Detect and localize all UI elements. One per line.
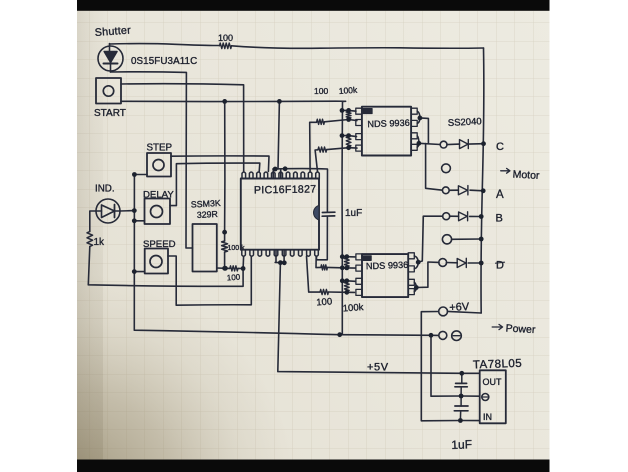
IC U3 NDS9936 body (bottom) — [362, 254, 408, 297]
resistor 100k pull coil B (top chip) — [346, 137, 351, 147]
svg-text:OUT: OUT — [483, 377, 503, 387]
wire left common rail down to power wire — [134, 175, 438, 336]
svg-text:1uF: 1uF — [345, 208, 362, 219]
IC U3 pin1 hatch mark — [363, 256, 372, 261]
svg-text:SS2040: SS2040 — [448, 116, 482, 129]
svg-text:Power: Power — [505, 323, 536, 337]
svg-text:PIC16F1827: PIC16F1827 — [254, 183, 317, 196]
connector D circle — [439, 259, 447, 267]
svg-text:100: 100 — [218, 33, 233, 43]
svg-text:100: 100 — [314, 86, 328, 96]
pushbutton STEP — [147, 153, 171, 177]
wire SPEED left stub — [134, 271, 144, 273]
wire gate row2 from PIC (bottom) — [316, 256, 321, 267]
wire motor rail vertical — [481, 48, 484, 313]
connector A circle — [442, 187, 449, 194]
resistor 100k (vertical, base pulldown) — [222, 241, 228, 252]
wire U2 upper pair to C corner — [420, 118, 429, 144]
svg-text:B: B — [496, 213, 503, 225]
svg-text:START: START — [94, 108, 126, 119]
svg-text:+5V: +5V — [367, 362, 389, 374]
IC U2 gate pins (left) — [356, 108, 362, 151]
left edge shading strip — [77, 0, 111, 472]
connector power + circle — [439, 331, 447, 339]
capacitor C1 1uF (upper) — [455, 373, 467, 396]
wire DELAY to PIC pin — [170, 163, 260, 206]
wire +6V left and down to IN row — [421, 312, 479, 421]
capacitor C2 1uF (lower) — [454, 396, 468, 421]
wire minus branch down to regulator mid row — [431, 335, 480, 396]
resistor 100k pull coil A (top chip) — [346, 112, 351, 119]
svg-text:NDS 9936: NDS 9936 — [366, 260, 409, 271]
bottom letterbox black bar — [77, 460, 550, 472]
wire SSM3K right to 100k junction — [217, 267, 226, 269]
wire VDD rail up to START wire — [278, 101, 279, 168]
capacitor 1uF decoupling plates — [322, 212, 335, 216]
svg-text:STEP: STEP — [147, 143, 173, 154]
svg-text:IN: IN — [483, 412, 492, 422]
svg-text:100: 100 — [316, 296, 333, 308]
arrow to Power — [492, 324, 502, 329]
regulator TA78L05 box — [480, 370, 506, 423]
wire rail from START wire down to junction — [224, 101, 226, 232]
svg-text:SSM3K: SSM3K — [191, 198, 221, 210]
diode C — [460, 140, 469, 149]
wire U2 lower pair join — [417, 136, 419, 148]
wire B net up — [418, 216, 481, 262]
wire START top to PIC pin — [121, 84, 244, 172]
wire C row — [419, 143, 484, 144]
wire 100k pull-up rail vertical — [341, 101, 344, 334]
wire A branch from C row — [426, 144, 484, 191]
svg-text:NDS 9936: NDS 9936 — [367, 118, 410, 129]
LED IND — [96, 199, 120, 223]
svg-text:A: A — [496, 189, 504, 201]
svg-text:Motor: Motor — [512, 169, 540, 182]
connector power - circle (minus) — [452, 331, 462, 341]
pushbutton DELAY — [145, 199, 171, 225]
wire D net up — [416, 262, 481, 288]
connector unused circle (lower) with wire — [442, 235, 481, 244]
capacitor blob inside PIC (dark semicircle) — [314, 205, 319, 220]
resistor 100k pull coil A (bottom chip) — [344, 258, 349, 267]
wire gate row1 (top) — [342, 109, 356, 112]
svg-text:329R: 329R — [197, 209, 219, 220]
resistor 1k — [87, 232, 93, 247]
wire +5V down to regulator row — [278, 263, 480, 374]
wire STEP left stub — [134, 174, 147, 176]
wire U3 upper pair join — [414, 256, 418, 269]
wire U3 lower pair join — [414, 282, 416, 291]
resistor 100 gate4 (bottom) — [320, 289, 329, 294]
diode D — [457, 258, 466, 267]
photo paper background — [77, 0, 550, 472]
wire gate row3 (bottom) — [342, 280, 355, 283]
wire IND left to 1k and bottom wire — [88, 211, 243, 286]
resistor 100 (PIC pin 1 series) — [230, 266, 238, 271]
svg-text:100k: 100k — [342, 302, 364, 314]
wire resistor to motor-rail corner — [232, 46, 484, 49]
resistor 100 (shutter) — [220, 43, 232, 49]
label SSM3K 329R — [191, 198, 221, 220]
arrow to Motor — [501, 168, 510, 173]
wire DELAY left stub — [134, 220, 144, 222]
resistor 100k pull coil B (bottom chip) — [344, 282, 349, 291]
wire gate row4 to chip (bottom) — [329, 291, 355, 293]
wire gate row2 to chip — [325, 120, 357, 122]
transistor SSM3K329R box — [193, 224, 217, 272]
wire gate row4 from PIC — [315, 150, 318, 172]
IC U3 gate pins (left) — [356, 254, 362, 296]
svg-text:Shutter: Shutter — [94, 24, 131, 39]
wire gate row1 (bottom) — [342, 256, 355, 258]
connector unused circle (upper) — [442, 164, 451, 173]
regulator GND pin circle (minus) — [482, 394, 489, 401]
wire shutter top to resistor — [110, 44, 220, 46]
wire VDD decoupling loop right side — [286, 169, 328, 260]
wire gate row2 from PIC — [310, 122, 317, 171]
IC U1 PIC16F1827 body — [241, 179, 319, 250]
wire SPEED to PIC pin — [168, 256, 251, 305]
svg-text:D: D — [496, 260, 504, 272]
svg-text:100k: 100k — [338, 85, 358, 96]
pushbutton SPEED — [145, 249, 168, 274]
wire STEP to PIC pin — [171, 156, 269, 172]
connector C circle — [440, 141, 447, 148]
svg-text:C: C — [496, 141, 504, 153]
wire gate row3 (top) — [342, 136, 357, 137]
wire gate row4 from PIC (bottom) — [307, 256, 321, 292]
IC U2 output pins (right) — [411, 108, 417, 150]
resistor 100 gate2 (bottom) — [321, 265, 328, 270]
wire +5V pair bar (bottom pins) — [275, 250, 285, 263]
diode B — [459, 212, 468, 221]
wire START bottom to 100k rail — [121, 100, 346, 102]
svg-text:100: 100 — [227, 273, 241, 283]
svg-text:1k: 1k — [94, 237, 106, 248]
IC U2 pin1 hatch mark — [363, 109, 373, 114]
wire gate row4 to chip — [327, 148, 357, 150]
resistor 100 gate2 — [317, 119, 325, 124]
IC U3 output pins (right) — [408, 253, 414, 295]
wire VDD pair bar (top pins) — [273, 169, 286, 179]
wire +6V to rail end — [448, 311, 482, 313]
wire gate row2 to chip (bottom) — [327, 266, 355, 269]
svg-text:0S15FU3A11C: 0S15FU3A11C — [131, 56, 197, 67]
top letterbox black bar — [77, 0, 550, 11]
wire U2 upper pair join — [417, 111, 420, 123]
wire shutter bottom L-path to SSM3K — [111, 72, 193, 248]
wire 100k resistor leads — [224, 232, 226, 268]
wire 100 resistor leads — [225, 256, 243, 268]
bottom-left corner shadow — [77, 0, 550, 472]
connector +6V circle — [439, 307, 448, 316]
pushbutton START — [96, 78, 121, 104]
svg-text:1uF: 1uF — [451, 437, 472, 452]
wire IND to left rail — [120, 210, 134, 212]
diode A — [458, 186, 468, 195]
IC U2 NDS9936 body (top) — [362, 107, 411, 156]
IC U1 top pins — [242, 172, 319, 179]
resistor 100 gate4 — [318, 147, 327, 152]
photodiode D1 (shutter LED) — [98, 44, 123, 73]
IC U1 bottom pins — [242, 250, 318, 257]
connector B circle — [443, 213, 450, 220]
svg-text:IND.: IND. — [95, 184, 115, 195]
